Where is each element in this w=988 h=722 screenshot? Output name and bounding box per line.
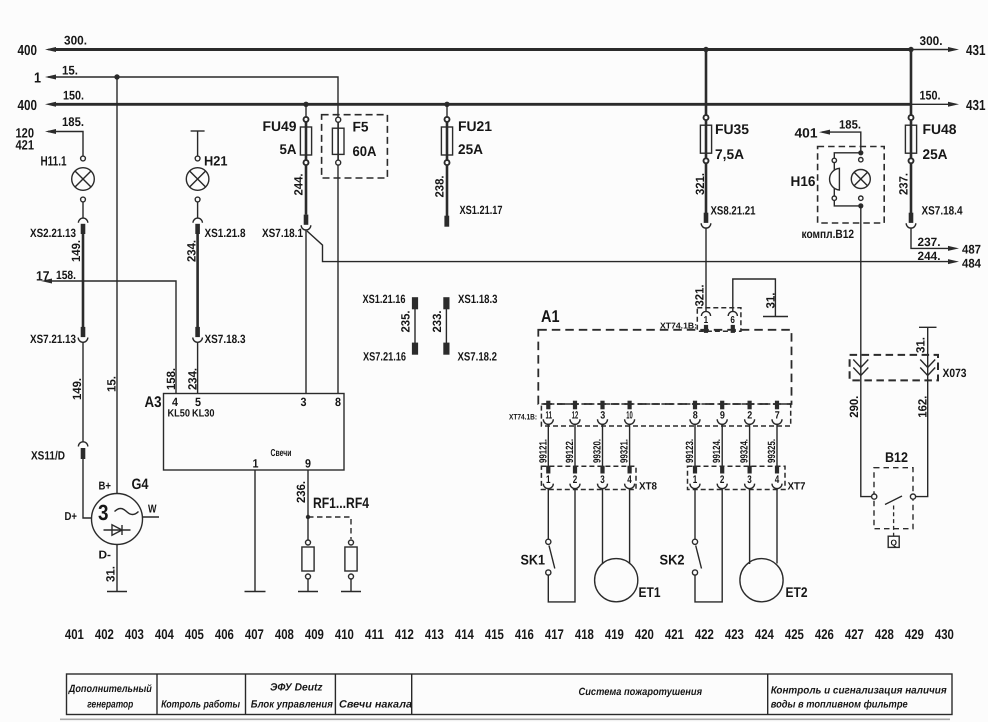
- arrow left wire185: [45, 129, 56, 134]
- svg-text:407: 407: [245, 626, 264, 642]
- svg-text:Блок управления: Блок управления: [251, 699, 333, 711]
- wire bus300 to FU35: [705, 50, 708, 116]
- svg-text:25A: 25A: [923, 146, 948, 162]
- svg-text:428: 428: [875, 626, 894, 642]
- pin 1 XT74.1B: [701, 311, 710, 332]
- wire lamp H21 to XS1.21.8: [197, 202, 199, 218]
- svg-text:Контроль и сигнализация наличи: Контроль и сигнализация наличия: [771, 685, 947, 697]
- svg-text:244.: 244.: [292, 174, 306, 196]
- svg-text:SK2: SK2: [660, 552, 685, 568]
- svg-text:XS7.18.2: XS7.18.2: [458, 350, 498, 364]
- generator G4: [92, 494, 143, 545]
- pin 10 A1: [625, 401, 635, 425]
- bus 300 (net 400/431): [48, 48, 948, 51]
- wire 244 branch to net 484: [307, 231, 948, 262]
- svg-text:D+: D+: [65, 511, 78, 523]
- svg-text:162.: 162.: [916, 396, 930, 418]
- svg-text:290.: 290.: [847, 396, 861, 418]
- svg-text:H21: H21: [204, 154, 228, 169]
- fuse block F5 dashed box: [322, 115, 388, 178]
- svg-text:149.: 149.: [69, 240, 83, 262]
- connector XS11/D: [78, 442, 87, 459]
- bus 150 (net 400/431): [48, 103, 948, 106]
- svg-text:XS1.21.8: XS1.21.8: [205, 226, 246, 240]
- connector XS8.21.21: [701, 213, 711, 228]
- svg-text:XS8.21.21: XS8.21.21: [711, 204, 756, 218]
- svg-text:Система пожаротушения: Система пожаротушения: [579, 686, 703, 698]
- svg-text:5A: 5A: [280, 141, 297, 157]
- svg-text:FU21: FU21: [458, 118, 492, 134]
- svg-text:400: 400: [18, 43, 38, 59]
- svg-text:X073: X073: [943, 366, 967, 380]
- svg-text:XS1.21.16: XS1.21.16: [363, 292, 406, 306]
- svg-text:403: 403: [125, 626, 144, 642]
- connector XT74.1B top box: [697, 308, 741, 331]
- ground RF4: [341, 591, 361, 593]
- svg-text:427: 427: [845, 626, 864, 642]
- svg-text:158.: 158.: [164, 368, 178, 390]
- svg-text:XT8: XT8: [639, 481, 657, 493]
- wire number row 401-430: [65, 626, 954, 642]
- pin 2 XT8: [570, 466, 580, 489]
- arrow right net484: [948, 259, 959, 264]
- svg-text:17: 17: [36, 269, 50, 284]
- glow plug RF1: [302, 540, 314, 592]
- svg-text:G4: G4: [132, 476, 150, 493]
- node H16 bottom: [858, 203, 863, 208]
- svg-text:Дополнительный: Дополнительный: [68, 683, 152, 695]
- svg-text:A3: A3: [145, 394, 162, 411]
- svg-text:99121.: 99121.: [537, 439, 549, 463]
- svg-text:11: 11: [546, 409, 553, 421]
- svg-text:2: 2: [747, 409, 752, 421]
- wire XT74.1B pin6 to ground 31: [733, 279, 776, 316]
- switch contact B12 left: [872, 494, 877, 499]
- photo element H16: [830, 163, 840, 196]
- svg-text:421: 421: [665, 626, 684, 642]
- svg-text:RF1...RF4: RF1...RF4: [313, 495, 370, 512]
- svg-text:406: 406: [215, 626, 234, 642]
- svg-text:ЭФУ Deutz: ЭФУ Deutz: [270, 682, 323, 694]
- connector XT8 strip: [541, 466, 636, 489]
- pin 11 A1: [543, 401, 553, 425]
- wire 185 to H16: [822, 132, 861, 151]
- svg-text:воды в топливном фильтре: воды в топливном фильтре: [771, 699, 908, 711]
- svg-text:487: 487: [962, 243, 981, 257]
- svg-text:1: 1: [546, 474, 551, 486]
- heater ET2: [740, 488, 783, 602]
- svg-text:XS1.21.17: XS1.21.17: [460, 203, 503, 217]
- pin 2 A1: [745, 401, 755, 425]
- arrow right bus300: [948, 47, 959, 52]
- svg-text:150.: 150.: [920, 89, 941, 103]
- wire bus300 to FU48: [910, 50, 913, 116]
- svg-text:235.: 235.: [399, 311, 413, 333]
- pin 1 XT8: [543, 466, 553, 489]
- svg-text:XS11/D: XS11/D: [31, 449, 65, 463]
- svg-text:25A: 25A: [458, 141, 483, 157]
- fuse FU35: [700, 115, 711, 163]
- wire XS7.18.1 to A3 pin3: [305, 230, 307, 394]
- svg-text:416: 416: [515, 626, 534, 642]
- svg-text:1: 1: [34, 71, 41, 87]
- pin 12 A1: [570, 401, 580, 425]
- svg-text:компл.В12: компл.В12: [802, 227, 855, 241]
- svg-text:409: 409: [305, 626, 324, 642]
- svg-text:99124.: 99124.: [711, 439, 723, 463]
- svg-text:31.: 31.: [104, 566, 118, 582]
- arrow left wire158: [41, 279, 52, 284]
- arrow left wire15: [45, 75, 56, 80]
- svg-text:XS7.21.16: XS7.21.16: [363, 350, 406, 364]
- pin 9 A1: [717, 401, 727, 425]
- svg-text:234.: 234.: [185, 240, 199, 262]
- svg-text:ET2: ET2: [786, 584, 808, 600]
- control unit A3: [164, 394, 345, 471]
- connector XT7 strip: [688, 466, 786, 489]
- svg-text:401: 401: [795, 126, 818, 141]
- svg-text:300.: 300.: [920, 34, 943, 48]
- diode inside G4: [104, 525, 131, 535]
- arrow right bus150: [948, 102, 959, 107]
- wire 99124: [721, 424, 723, 466]
- actuator link B12: [893, 506, 895, 536]
- float sensor box B12: [888, 536, 899, 547]
- svg-text:300.: 300.: [64, 34, 87, 48]
- svg-text:F5: F5: [353, 119, 369, 135]
- terminal circle H16 left bottom: [832, 196, 836, 200]
- svg-text:402: 402: [95, 626, 114, 642]
- fuse FU48: [905, 115, 916, 163]
- wire net 487: [911, 228, 948, 248]
- connector XS7.18.4: [906, 213, 916, 228]
- svg-text:A1: A1: [541, 307, 560, 326]
- arrow left bus300: [45, 47, 56, 52]
- pin 3 A1: [598, 401, 608, 425]
- pin 3 XT7: [745, 466, 755, 489]
- terminal circle H16 lamp top: [859, 158, 863, 162]
- svg-text:31.: 31.: [914, 337, 928, 353]
- svg-text:484: 484: [962, 257, 981, 271]
- svg-text:431: 431: [966, 43, 986, 59]
- svg-text:150.: 150.: [63, 89, 84, 103]
- wire 321 thick: [705, 163, 708, 213]
- lamp H16: [851, 170, 870, 189]
- pin 4 XT8: [625, 466, 635, 489]
- svg-text:1: 1: [253, 457, 259, 471]
- terminal bar H21 top: [191, 130, 205, 132]
- svg-text:B12: B12: [885, 449, 908, 465]
- wire 238 thick: [446, 165, 449, 216]
- svg-text:234.: 234.: [186, 368, 200, 390]
- wire 99320: [602, 424, 604, 466]
- svg-text:XS7.21.13: XS7.21.13: [30, 332, 76, 346]
- wire 149 thick: [82, 233, 85, 327]
- svg-text:237.: 237.: [897, 173, 911, 195]
- svg-text:9: 9: [720, 409, 725, 421]
- svg-text:321.: 321.: [693, 173, 707, 195]
- wire 99122: [574, 424, 576, 466]
- svg-text:415: 415: [485, 626, 504, 642]
- ground G4: [107, 591, 127, 593]
- wire H16 parallel top: [834, 153, 861, 158]
- svg-text:238.: 238.: [433, 176, 447, 198]
- node junction 15/G4: [114, 74, 119, 79]
- svg-text:422: 422: [695, 626, 714, 642]
- svg-text:99324.: 99324.: [739, 439, 751, 463]
- wire 99321: [629, 424, 631, 466]
- wire 99324: [749, 424, 751, 466]
- svg-text:2: 2: [573, 474, 578, 486]
- svg-text:431: 431: [966, 98, 986, 114]
- connector XS2.21.13: [78, 218, 87, 234]
- svg-text:149.: 149.: [70, 378, 84, 400]
- node FU35 on bus300: [703, 47, 708, 52]
- svg-text:404: 404: [155, 626, 174, 642]
- lamp H21 terminal top: [195, 156, 200, 161]
- connector pair XS1.18.3/XS7.18.2: [443, 297, 449, 355]
- svg-text:31.: 31.: [764, 293, 778, 309]
- svg-text:405: 405: [185, 626, 204, 642]
- svg-text:420: 420: [635, 626, 654, 642]
- pin 2 XT7: [717, 466, 727, 489]
- svg-text:423: 423: [725, 626, 744, 642]
- svg-text:430: 430: [935, 626, 954, 642]
- svg-text:1: 1: [693, 474, 698, 486]
- wire XS11/D to G4 D+: [83, 459, 92, 518]
- connector XS1.21.8: [193, 218, 202, 234]
- svg-text:233.: 233.: [430, 311, 444, 333]
- fuse FU21: [441, 104, 452, 165]
- svg-text:99123.: 99123.: [684, 439, 696, 463]
- switch SK1: [546, 488, 575, 602]
- svg-text:Свечи: Свечи: [271, 448, 292, 459]
- svg-text:429: 429: [905, 626, 924, 642]
- svg-text:8: 8: [693, 409, 698, 421]
- sensor B12 dashed box: [874, 468, 913, 529]
- arrow left bus150: [45, 102, 56, 107]
- svg-text:Q: Q: [891, 538, 898, 548]
- wire 244 thick: [305, 165, 308, 215]
- svg-text:99320.: 99320.: [592, 439, 604, 463]
- svg-text:401: 401: [65, 626, 84, 642]
- switch contact B12 right: [910, 494, 915, 499]
- pin 1 XT7: [690, 466, 700, 489]
- wire H16 to X073: [860, 206, 862, 376]
- dashed branch to RF2: [308, 517, 351, 539]
- svg-text:FU48: FU48: [923, 121, 957, 137]
- arrow right net487: [948, 246, 959, 251]
- wire 234 thick: [196, 233, 199, 327]
- svg-text:10: 10: [626, 409, 633, 421]
- svg-text:3: 3: [301, 395, 307, 409]
- svg-text:236.: 236.: [294, 481, 308, 503]
- svg-text:99325.: 99325.: [766, 439, 778, 463]
- svg-text:7,5A: 7,5A: [715, 146, 744, 162]
- terminal circle H16 lamp bottom: [859, 196, 863, 200]
- fuse FU49: [300, 104, 311, 165]
- pin 3 XT8: [598, 466, 608, 489]
- wire A3 pin1 to ground: [254, 470, 256, 592]
- wire 31 to X073: [927, 327, 929, 376]
- svg-text:412: 412: [395, 626, 414, 642]
- bottom frame line: [60, 718, 950, 720]
- svg-text:414: 414: [455, 626, 474, 642]
- svg-text:3: 3: [747, 474, 752, 486]
- svg-text:185.: 185.: [62, 115, 84, 129]
- svg-text:4: 4: [775, 474, 780, 486]
- pin 6 XT74.1B: [728, 311, 737, 333]
- node FU49 on bus150: [303, 102, 308, 107]
- svg-text:424: 424: [755, 626, 774, 642]
- node FU21 on bus150: [444, 102, 449, 107]
- svg-text:XS7.18.3: XS7.18.3: [205, 332, 246, 346]
- svg-text:KL50: KL50: [168, 408, 191, 420]
- switch SK2: [692, 488, 722, 602]
- svg-text:426: 426: [815, 626, 834, 642]
- wire 99123: [694, 424, 696, 466]
- terminal 31 X073: [919, 326, 937, 328]
- stub W: [142, 516, 159, 518]
- svg-text:421: 421: [16, 138, 35, 153]
- pin 4 XT7: [772, 466, 782, 489]
- svg-text:2: 2: [720, 474, 725, 486]
- svg-text:Свечи накала: Свечи накала: [339, 699, 412, 711]
- svg-text:15.: 15.: [62, 64, 78, 78]
- wire A3 pin9 (236.): [307, 470, 309, 540]
- ECU A1 dashed box: [538, 330, 791, 404]
- wire H16 parallel bottom: [834, 200, 861, 206]
- pin 7 A1: [772, 401, 782, 425]
- svg-text:418: 418: [575, 626, 594, 642]
- svg-text:99122.: 99122.: [564, 439, 576, 463]
- svg-text:3: 3: [600, 409, 605, 421]
- connector XT74.1B bottom strip: [541, 404, 790, 426]
- lamp H21: [186, 168, 209, 191]
- svg-text:3: 3: [98, 500, 109, 525]
- svg-text:1: 1: [704, 315, 709, 326]
- wire net1 to G4 B+: [116, 77, 118, 494]
- connector XS1.21.17 pin: [444, 216, 449, 227]
- svg-text:408: 408: [275, 626, 294, 642]
- svg-text:W: W: [148, 504, 157, 516]
- svg-text:XT7: XT7: [788, 481, 806, 493]
- svg-text:99321.: 99321.: [619, 439, 631, 463]
- connector pair XS1.21.16/XS7.21.16: [412, 297, 418, 355]
- svg-text:6: 6: [730, 315, 735, 326]
- wire 234 lower to A3 pin5: [197, 342, 199, 393]
- svg-text:158.: 158.: [56, 268, 76, 282]
- svg-text:8: 8: [335, 395, 341, 409]
- svg-text:ET1: ET1: [639, 584, 661, 600]
- svg-text:генератор: генератор: [87, 699, 133, 711]
- node RF branch: [306, 515, 310, 519]
- svg-text:400: 400: [18, 98, 38, 114]
- wire 99325: [776, 424, 778, 466]
- svg-text:3: 3: [600, 474, 605, 486]
- ground 31 pin6: [763, 316, 788, 318]
- svg-text:410: 410: [335, 626, 354, 642]
- switch blade B12: [885, 496, 902, 505]
- wire 290: [861, 376, 872, 497]
- svg-text:321.: 321.: [693, 285, 707, 307]
- svg-text:XT74.1B:: XT74.1B:: [509, 413, 537, 422]
- chevron X073 right: [920, 360, 935, 376]
- chevron X073 left: [853, 360, 868, 376]
- wire 149 lower: [82, 342, 84, 441]
- arrow left wire185 H16: [819, 130, 830, 135]
- svg-text:237.: 237.: [918, 235, 941, 249]
- legend table: [67, 674, 953, 715]
- node FU48 on bus300: [908, 47, 913, 52]
- wire 158 / net 17: [50, 281, 176, 394]
- wire 15 (net 1): [48, 77, 338, 394]
- svg-text:411: 411: [365, 626, 384, 642]
- svg-text:12: 12: [572, 409, 579, 421]
- svg-text:185.: 185.: [839, 118, 861, 132]
- wire lamp to XS2.21.13: [82, 202, 84, 218]
- svg-text:D-: D-: [99, 550, 112, 562]
- svg-text:H11.1: H11.1: [41, 154, 67, 169]
- svg-text:417: 417: [545, 626, 564, 642]
- svg-text:FU35: FU35: [715, 121, 749, 137]
- svg-text:SK1: SK1: [521, 552, 546, 568]
- svg-text:7: 7: [775, 409, 780, 421]
- wire G4 to ground: [116, 545, 118, 592]
- connector XS7.18.1: [301, 215, 311, 230]
- terminal circle H16 left top: [832, 158, 836, 162]
- svg-text:60A: 60A: [353, 143, 377, 159]
- svg-text:244.: 244.: [918, 249, 941, 263]
- svg-text:425: 425: [785, 626, 804, 642]
- lamp H11.1 terminal top: [81, 156, 86, 161]
- tilde inside G4: [115, 509, 139, 515]
- svg-text:XS1.18.3: XS1.18.3: [458, 292, 498, 306]
- connector XS7.21.13: [78, 327, 88, 342]
- fuse F5: [332, 117, 344, 165]
- lamp H11.1 terminal bottom: [81, 197, 86, 202]
- svg-text:Котроль работы: Котроль работы: [161, 699, 240, 711]
- svg-text:419: 419: [605, 626, 624, 642]
- svg-text:FU49: FU49: [263, 118, 297, 134]
- lamp H21 terminal bottom: [195, 197, 200, 202]
- connector XS7.18.3: [193, 327, 203, 342]
- svg-text:XS2.21.13: XS2.21.13: [30, 226, 76, 240]
- node H16 top: [858, 150, 863, 155]
- svg-text:KL30: KL30: [192, 408, 215, 420]
- wire 162: [916, 376, 928, 497]
- ground A3 pin1: [245, 591, 266, 593]
- svg-text:413: 413: [425, 626, 444, 642]
- svg-text:B+: B+: [99, 481, 112, 493]
- wire XS8.21.21 to XT74.1B pin1: [705, 228, 707, 311]
- svg-text:4: 4: [627, 474, 632, 486]
- lamp H11.1: [72, 168, 95, 191]
- wire 99121: [547, 424, 549, 466]
- heater ET1: [595, 488, 638, 602]
- wire H21 top: [197, 131, 199, 156]
- svg-text:XS7.18.4: XS7.18.4: [922, 204, 963, 218]
- svg-text:H16: H16: [791, 173, 816, 189]
- wire 237 thick: [910, 163, 913, 213]
- wire 185 to H11.1: [48, 132, 83, 157]
- svg-text:XS7.18.1: XS7.18.1: [262, 226, 303, 240]
- svg-text:9: 9: [305, 457, 311, 471]
- lamp unit H16 dashed box: [818, 147, 885, 224]
- ground RF1: [298, 591, 318, 593]
- pin 8 A1: [690, 401, 700, 425]
- glow plug RF4: [345, 540, 357, 592]
